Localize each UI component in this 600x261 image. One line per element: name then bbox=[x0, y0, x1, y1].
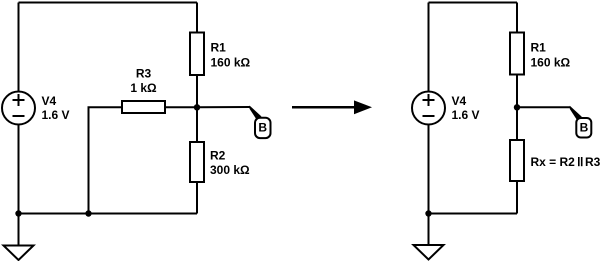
wire R3 right terminal to node (left circuit) bbox=[165, 106, 197, 108]
svg-text:B: B bbox=[258, 120, 267, 134]
wire R2 to bottom rail (left circuit) bbox=[196, 182, 198, 214]
wire left rail top (V4 to top rail, left circuit) bbox=[18, 3, 20, 92]
svg-text:1.6 V: 1.6 V bbox=[42, 108, 70, 122]
voltage source V4 (right circuit) bbox=[412, 92, 445, 125]
svg-text:R1: R1 bbox=[531, 41, 547, 55]
wire R1 to node B (left circuit) bbox=[196, 75, 198, 107]
wire bottom rail (right circuit) bbox=[429, 213, 518, 215]
resistor Rx (right circuit) bbox=[510, 140, 524, 181]
node junction dot V4 bottom rail (right circuit) bbox=[425, 210, 431, 216]
svg-text:160 kΩ: 160 kΩ bbox=[211, 56, 251, 70]
wire top rail (right circuit) bbox=[429, 2, 518, 4]
net flag B box (right circuit) bbox=[576, 118, 591, 138]
wire node to Rx (right circuit) bbox=[516, 107, 518, 140]
voltage source V4 (left circuit) bbox=[2, 92, 35, 125]
label Rx = R2 parallel R3 (right circuit) bbox=[531, 155, 600, 169]
arrow between circuits bbox=[292, 100, 372, 114]
node junction dot at node B (right circuit) bbox=[514, 104, 520, 110]
svg-text:R3: R3 bbox=[585, 155, 600, 169]
label R2 300 kOhm (left circuit) bbox=[210, 149, 250, 178]
svg-text:V4: V4 bbox=[452, 94, 467, 108]
node junction dot V4 bottom rail (left circuit) bbox=[15, 210, 21, 216]
ground (right circuit) bbox=[414, 214, 444, 260]
label R1 160 kOhm (left circuit) bbox=[211, 41, 251, 70]
wire top rail to R1 (left circuit) bbox=[196, 3, 198, 33]
wire Rx to bottom rail (right circuit) bbox=[516, 181, 518, 214]
net flag B pointer wedge (right circuit) bbox=[570, 106, 582, 120]
svg-text:B: B bbox=[580, 120, 589, 134]
wire node to flag B (left circuit) bbox=[197, 106, 250, 108]
wire top rail (left circuit) bbox=[19, 2, 198, 4]
wire node to R2 (left circuit) bbox=[196, 107, 198, 142]
node junction dot R3 bottom rail (left circuit) bbox=[85, 210, 91, 216]
wire node to flag B (right circuit) bbox=[517, 106, 570, 108]
label R1 160 kOhm (right circuit) bbox=[531, 41, 571, 70]
resistor R1 (right circuit) bbox=[510, 33, 524, 75]
label V4 1.6 V (right circuit) bbox=[452, 94, 480, 122]
svg-text:R1: R1 bbox=[211, 41, 227, 55]
wire R1 to node B (right circuit) bbox=[516, 75, 518, 108]
resistor R3 (left circuit) bbox=[122, 101, 165, 113]
svg-text:300 kΩ: 300 kΩ bbox=[210, 163, 250, 177]
wire R3 left terminal down to bottom rail (left circuit) bbox=[89, 107, 123, 213]
wire V4 to bottom rail (right circuit) bbox=[428, 125, 430, 214]
resistor R2 (left circuit) bbox=[190, 142, 204, 182]
svg-text:1.6 V: 1.6 V bbox=[452, 108, 480, 122]
ground (left circuit) bbox=[4, 214, 34, 261]
wire bottom rail (left circuit) bbox=[19, 213, 198, 215]
net flag B pointer wedge (left circuit) bbox=[250, 106, 262, 120]
svg-text:160 kΩ: 160 kΩ bbox=[531, 56, 571, 70]
label R3 1 kOhm (left circuit) bbox=[130, 67, 157, 96]
label V4 1.6 V (left circuit) bbox=[42, 94, 70, 122]
resistor R1 (left circuit) bbox=[190, 33, 204, 76]
wire top rail to R1 (right circuit) bbox=[516, 3, 518, 33]
wire V4 to bottom rail (left circuit) bbox=[18, 125, 20, 214]
svg-text:1 kΩ: 1 kΩ bbox=[130, 81, 157, 95]
svg-text:Rx = R2: Rx = R2 bbox=[531, 155, 576, 169]
svg-text:R2: R2 bbox=[210, 149, 226, 163]
net flag B box (left circuit) bbox=[255, 118, 271, 138]
node junction dot at node B (left circuit) bbox=[194, 104, 200, 110]
svg-text:R3: R3 bbox=[136, 67, 152, 81]
wire left rail top (V4 to top rail, right circuit) bbox=[428, 3, 430, 92]
svg-text:V4: V4 bbox=[42, 94, 57, 108]
